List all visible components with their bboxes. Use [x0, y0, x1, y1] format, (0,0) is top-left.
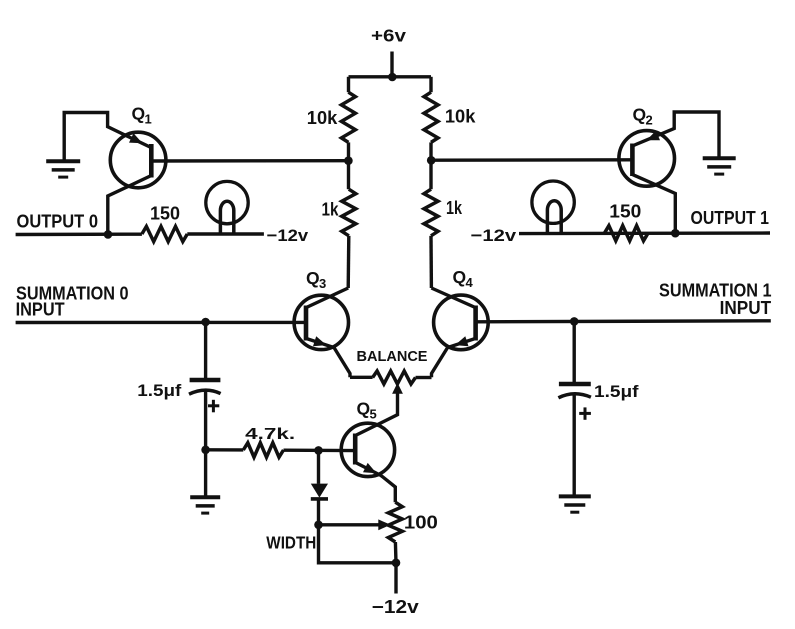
- wire output 1: [519, 231, 770, 235]
- wire Q2 emitter to ground: [633, 112, 719, 158]
- svg-text:4: 4: [466, 275, 474, 290]
- wire C1 to ground node: [204, 391, 207, 450]
- label 150 left: [150, 204, 180, 224]
- label 1.5uf right: [594, 383, 639, 401]
- node summation 0: [201, 318, 210, 327]
- svg-text:Q: Q: [357, 399, 371, 419]
- label SUMMATION 0: [16, 284, 129, 304]
- wire Q3 collector: [306, 288, 348, 308]
- transistor Q3: [294, 295, 348, 349]
- transistor Q4: [434, 295, 489, 350]
- label 10k left: [307, 108, 338, 128]
- node supply junction: [388, 73, 397, 82]
- label Q3: [306, 268, 326, 291]
- resistor 10k right: [424, 92, 438, 142]
- node 100 bottom: [392, 559, 401, 568]
- label +6v: [371, 26, 406, 46]
- label Q5: [357, 399, 377, 422]
- wire Q4 collector: [431, 288, 475, 308]
- svg-text:−12v: −12v: [372, 597, 419, 617]
- svg-text:2: 2: [646, 113, 653, 128]
- svg-text:−12v: −12v: [267, 226, 309, 245]
- resistor 10k left: [341, 92, 355, 142]
- svg-text:BALANCE: BALANCE: [357, 349, 428, 365]
- label 1k right: [446, 198, 463, 218]
- label Q4: [453, 267, 474, 290]
- transistor Q2: [619, 131, 675, 187]
- node C1 bottom: [201, 446, 210, 455]
- wire 10k R2 bottom lead: [429, 142, 432, 189]
- arrow Q3 emitter: [313, 336, 327, 346]
- svg-text:10k: 10k: [445, 107, 476, 127]
- arrow Q4 emitter: [455, 336, 469, 346]
- wire 1k left to Q3 collector: [347, 236, 351, 288]
- transistor Q5: [341, 423, 394, 476]
- node output 0: [104, 230, 113, 239]
- svg-text:INPUT: INPUT: [16, 299, 65, 319]
- svg-text:INPUT: INPUT: [720, 298, 772, 318]
- resistor 150 left: [142, 226, 187, 241]
- svg-text:OUTPUT 1: OUTPUT 1: [691, 208, 770, 228]
- wire 10k R1 top lead: [347, 77, 350, 92]
- potentiometer BALANCE: [350, 371, 432, 384]
- ground G4 (C2): [559, 496, 591, 512]
- node Q5 base: [314, 446, 323, 455]
- label -12v left: [267, 226, 309, 245]
- label + C2: [579, 407, 591, 419]
- wire width node down: [319, 525, 397, 563]
- label 1k left: [322, 199, 340, 219]
- wire 10k R2 top lead: [429, 77, 432, 92]
- wire diode to width node: [317, 499, 320, 525]
- svg-text:OUTPUT 0: OUTPUT 0: [17, 211, 99, 231]
- label 10k right: [445, 107, 476, 127]
- svg-text:150: 150: [609, 202, 641, 222]
- svg-text:4.7k.: 4.7k.: [245, 426, 295, 443]
- node output 1: [671, 229, 680, 238]
- wire Q2 collector to output 1: [632, 175, 675, 233]
- wire Q4 emitter: [432, 339, 476, 378]
- wire node to ground G3: [204, 450, 207, 497]
- capacitor C1 1.5uf: [189, 380, 221, 394]
- resistor 1k right: [424, 189, 438, 236]
- transistor Q1: [110, 132, 166, 188]
- svg-text:+6v: +6v: [371, 26, 406, 46]
- wire summation 0 node to C1: [204, 322, 207, 378]
- svg-text:3: 3: [319, 276, 326, 291]
- wire 1k right to Q4 collector: [429, 236, 433, 288]
- node summation 1: [570, 317, 579, 326]
- svg-text:10k: 10k: [307, 108, 338, 128]
- wire 150 to -12v left: [187, 232, 264, 235]
- svg-text:Q: Q: [633, 105, 647, 125]
- node right divider: [427, 156, 436, 165]
- wire summation 1 node to C2: [573, 321, 576, 382]
- svg-text:−12v: −12v: [471, 226, 517, 245]
- svg-text:5: 5: [370, 407, 377, 422]
- resistor 100: [388, 502, 402, 542]
- arrow BALANCE wiper: [392, 383, 403, 394]
- label SUMMATION 1: [659, 280, 772, 300]
- wire Q1 emitter to ground: [64, 113, 151, 162]
- label OUTPUT 1: [691, 208, 770, 228]
- svg-text:WIDTH: WIDTH: [266, 533, 316, 553]
- label 150 right: [609, 202, 641, 222]
- wire top rail: [349, 75, 432, 78]
- svg-text:Q: Q: [306, 268, 320, 288]
- label OUTPUT 0: [17, 211, 99, 231]
- label 1.5uf left: [137, 382, 182, 400]
- wire Q2 base: [431, 158, 632, 162]
- wire C2 to ground G4: [573, 395, 576, 497]
- label -12v right: [471, 226, 517, 245]
- svg-text:100: 100: [404, 512, 438, 532]
- node WIDTH: [314, 521, 323, 530]
- svg-text:1k: 1k: [322, 199, 340, 219]
- svg-text:1k: 1k: [446, 198, 463, 218]
- svg-text:1.5μf: 1.5μf: [594, 383, 639, 401]
- label + C1: [208, 400, 219, 413]
- label INPUT right: [720, 298, 772, 318]
- label WIDTH: [266, 533, 316, 553]
- arrow Q2 emitter: [647, 131, 661, 141]
- wire 10k R1 bottom lead: [347, 142, 350, 189]
- wire summation 0 input: [16, 321, 307, 325]
- wire summation 1 input: [476, 321, 771, 322]
- label 100: [404, 512, 438, 532]
- resistor 1k left: [342, 189, 356, 236]
- wire 100 to -12v: [394, 542, 398, 594]
- label BALANCE: [357, 349, 428, 365]
- wire Q5 emitter: [356, 463, 396, 503]
- ground G2 (Q2 emitter): [703, 158, 736, 174]
- ground G1 (Q1 emitter): [46, 161, 80, 177]
- arrow Q5 emitter: [363, 463, 377, 473]
- svg-text:Q: Q: [453, 267, 467, 287]
- lamp L1: [206, 181, 248, 234]
- node left divider: [344, 156, 353, 165]
- lamp L2: [532, 181, 574, 233]
- wire 100 wiper: [319, 523, 379, 526]
- ground G3 (C1): [190, 497, 220, 513]
- label Q1: [132, 104, 152, 127]
- resistor 150 right: [604, 226, 648, 241]
- wire Q3 emitter: [306, 339, 350, 378]
- svg-text:Q: Q: [132, 104, 146, 124]
- label INPUT left: [16, 299, 65, 319]
- wire +6v stub: [390, 52, 393, 78]
- resistor 4.7k: [206, 443, 356, 457]
- svg-text:1.5μf: 1.5μf: [137, 382, 182, 400]
- label -12v bottom: [372, 597, 419, 617]
- wire Q1 collector to output 0: [108, 176, 152, 235]
- diode D1: [311, 484, 328, 499]
- svg-text:150: 150: [150, 204, 180, 224]
- arrow 100 wiper: [378, 519, 391, 530]
- wire Q1 base: [151, 159, 348, 163]
- arrow Q1 emitter: [129, 133, 143, 143]
- capacitor C2 1.5uf: [558, 384, 591, 398]
- wire output 0: [16, 232, 142, 236]
- wire BALANCE wiper to Q5: [356, 393, 398, 436]
- label 4.7k: [245, 426, 295, 443]
- wire Q5 base node to diode: [317, 450, 320, 483]
- label Q2: [633, 105, 653, 128]
- svg-text:1: 1: [145, 112, 152, 127]
